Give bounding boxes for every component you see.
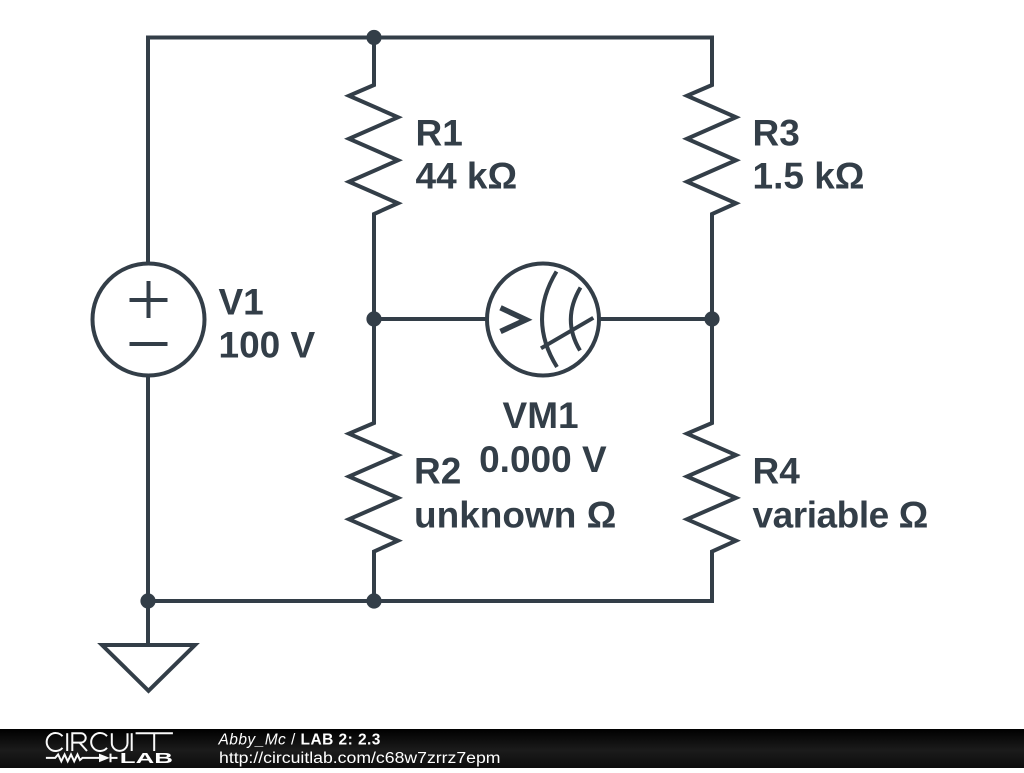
svg-text:http://circuitlab.com/c68w7zrr: http://circuitlab.com/c68w7zrrz7epm	[219, 750, 501, 767]
svg-text:R2: R2	[414, 451, 461, 492]
svg-text:0.000 V: 0.000 V	[479, 439, 607, 480]
svg-text:variable Ω: variable Ω	[753, 495, 928, 536]
svg-text:VM1: VM1	[503, 395, 579, 436]
svg-text:44 kΩ: 44 kΩ	[416, 155, 518, 196]
svg-text:LAB: LAB	[120, 750, 173, 767]
svg-text:Abby_Mc / LAB 2: 2.3: Abby_Mc / LAB 2: 2.3	[218, 732, 381, 749]
svg-text:R3: R3	[753, 112, 800, 153]
svg-text:R1: R1	[416, 112, 463, 153]
svg-text:1.5 kΩ: 1.5 kΩ	[753, 155, 865, 196]
svg-text:unknown Ω: unknown Ω	[414, 495, 616, 536]
svg-text:100 V: 100 V	[219, 325, 316, 366]
svg-text:R4: R4	[753, 451, 801, 492]
svg-text:V1: V1	[219, 282, 264, 323]
